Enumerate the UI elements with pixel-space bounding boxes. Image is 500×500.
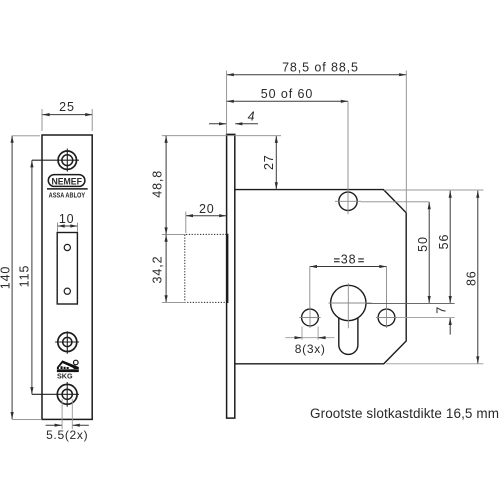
svg-text:NEMEF: NEMEF	[51, 176, 82, 186]
top screw hole	[58, 151, 76, 169]
SKG logo	[57, 360, 79, 372]
tick top hole to 50-dim line	[361, 201, 429, 203]
dimension 50 (right)	[428, 202, 430, 303]
svg-text:5.5(2x): 5.5(2x)	[46, 428, 88, 442]
euro cylinder hole	[331, 285, 366, 320]
svg-text:38: 38	[341, 253, 357, 267]
deadbolt dotted box	[185, 234, 227, 302]
svg-text:56: 56	[437, 234, 451, 250]
dimension 25 (plate width)	[42, 114, 92, 116]
tick case bottom to right	[386, 363, 484, 365]
dimension 140 (plate height)	[11, 136, 13, 420]
svg-text:Grootste slotkastdikte 16,5 mm: Grootste slotkastdikte 16,5 mm	[310, 406, 499, 421]
svg-text:10: 10	[59, 212, 75, 226]
slot hole top	[64, 244, 70, 250]
follower slot rectangle	[57, 233, 77, 305]
tick case top to right	[384, 189, 484, 191]
small hole right (8mm)	[378, 309, 395, 326]
top hole (spindle)	[339, 192, 357, 210]
svg-text:25: 25	[59, 100, 75, 114]
svg-text:7: 7	[435, 306, 449, 314]
dimension 5.5(2x) extension lines	[61, 399, 63, 429]
svg-text:50 of 60: 50 of 60	[261, 87, 313, 101]
extension line to top hole	[347, 101, 349, 192]
slot hole bottom	[64, 288, 70, 294]
svg-text:50: 50	[416, 236, 430, 252]
svg-text:34,2: 34,2	[151, 256, 165, 284]
extension line right (case right edge up)	[405, 71, 407, 213]
tick small holes center to right	[397, 317, 455, 319]
underline	[47, 188, 88, 190]
svg-text:48,8: 48,8	[150, 170, 164, 198]
dimension 48,8	[165, 136, 167, 235]
tick at bolt bottom extended	[162, 301, 186, 303]
dimension 56 (right)	[449, 191, 451, 304]
bottom screw hole	[57, 384, 77, 404]
svg-text:115: 115	[18, 265, 32, 288]
dimension 115 (screw hole centers)	[31, 160, 33, 394]
middle screw hole	[58, 333, 77, 352]
small hole left (8mm)	[302, 309, 319, 326]
dimension 8(3x)	[285, 337, 334, 339]
tick cylinder center to right	[366, 302, 455, 304]
svg-text:86: 86	[465, 270, 479, 286]
dimension 27	[275, 136, 277, 190]
NEMEF oval logo	[48, 175, 85, 187]
cylinder crosshair	[347, 283, 349, 328]
svg-text:140: 140	[0, 266, 13, 290]
deadbolt thick edge on plate	[226, 234, 228, 303]
tick at plate top level	[162, 135, 281, 137]
dimension 7 (cylinder to holes)	[449, 318, 451, 335]
svg-text:4: 4	[248, 110, 256, 124]
faceplate plate outline	[42, 135, 92, 419]
faceplate side bar	[227, 134, 235, 418]
svg-text:8(3x): 8(3x)	[295, 342, 326, 356]
tick at bolt top extended	[162, 234, 186, 236]
lock case outline	[235, 190, 406, 364]
svg-text:78,5 of 88,5: 78,5 of 88,5	[282, 61, 359, 75]
svg-text:27: 27	[262, 154, 276, 170]
svg-text:SKG: SKG	[57, 372, 73, 381]
svg-text:ASSA ABLOY: ASSA ABLOY	[49, 190, 86, 199]
extension line left (plate left edge up)	[226, 71, 228, 135]
dimension 86 (case height)	[477, 191, 479, 364]
svg-text:20: 20	[199, 202, 215, 216]
dimension 34,2	[165, 235, 167, 303]
extension line bolt left edge up	[185, 212, 187, 234]
extension lines down to holes	[309, 267, 311, 309]
dimension 5.5(2x) arrows	[46, 424, 62, 426]
